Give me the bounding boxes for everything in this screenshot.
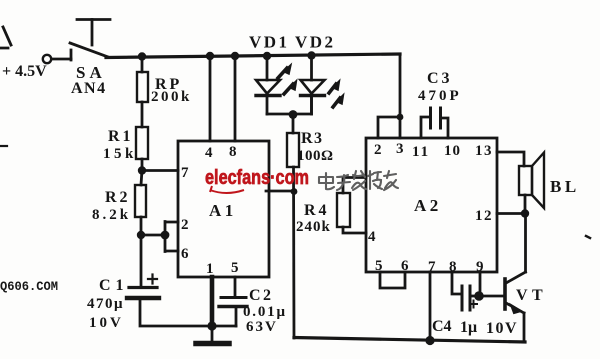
ground <box>211 326 214 342</box>
wire node to VT collector <box>524 213 527 272</box>
svg-text:A1: A1 <box>209 201 237 220</box>
wire C2 to ground net <box>235 307 238 326</box>
push button plunger <box>91 20 94 46</box>
A1 pin 8 leg <box>234 56 237 141</box>
wire R3 to bottom rail <box>292 167 295 338</box>
scan artifact dash left edge <box>0 145 7 147</box>
svg-text:elecfans·com: elecfans·com <box>205 167 309 189</box>
scan artifact speck right <box>586 236 590 238</box>
resistor R1 <box>136 127 148 159</box>
svg-text:C1: C1 <box>99 277 129 294</box>
svg-text:3: 3 <box>396 141 404 157</box>
wire A2 pin12 <box>497 212 525 215</box>
svg-text:12: 12 <box>475 208 493 224</box>
capacitor C1 plus mark <box>148 275 157 284</box>
node C4 base junction dot <box>474 291 484 301</box>
wire VT base <box>479 295 505 298</box>
svg-text:5: 5 <box>231 260 239 276</box>
svg-text:R2: R2 <box>105 189 131 206</box>
watermark chinese characters gray <box>319 171 398 190</box>
svg-text:10V: 10V <box>486 320 518 337</box>
wire R1R2 node to R2 <box>141 170 142 185</box>
tie bar pins 2 and 6 of A1 <box>165 222 178 252</box>
wire R2 node to pins 2-6 tie <box>141 234 165 237</box>
wire C1 to ground net <box>140 298 236 326</box>
svg-text:10V: 10V <box>89 315 124 331</box>
A2 pin 9 leg <box>479 272 482 296</box>
wire node R1R2 to A1 pin7 <box>142 169 178 172</box>
transistor Q1 VT collector <box>506 272 526 283</box>
svg-text:8: 8 <box>229 144 237 160</box>
svg-text:VD2: VD2 <box>295 33 336 52</box>
LED VD1 arrows <box>278 68 287 78</box>
node R2 bottom junction dots <box>137 231 145 239</box>
svg-text:C3: C3 <box>427 70 453 87</box>
svg-text:6: 6 <box>401 258 409 274</box>
transistor VT base bar <box>503 279 507 309</box>
wire R2 bottom <box>140 217 143 235</box>
capacitor C4 plates <box>461 286 464 310</box>
wire R4 to A2 pin4 <box>343 227 366 233</box>
svg-text:VD1: VD1 <box>249 33 290 52</box>
jumper A2 pins 5-6 <box>380 272 405 288</box>
LED VD2 arrows <box>329 84 336 93</box>
transistor VT emitter <box>506 303 524 313</box>
A1 pin 4 leg <box>209 56 212 141</box>
svg-text:+ 4.5V: + 4.5V <box>2 63 47 80</box>
svg-text:5: 5 <box>375 258 383 274</box>
wire node to C1 <box>140 235 143 286</box>
svg-text:6: 6 <box>181 246 189 262</box>
svg-text:2: 2 <box>374 142 382 158</box>
svg-text:15k: 15k <box>103 146 137 162</box>
wire R1 bottom <box>141 159 144 170</box>
A1 pin 5 leg <box>234 277 237 297</box>
wire RP top lead <box>141 56 144 72</box>
A2 pin 8 leg to C4 <box>452 272 461 294</box>
capacitor C4 plus mark <box>470 301 477 308</box>
A2 pin 7 leg <box>429 272 432 341</box>
svg-text:13: 13 <box>475 143 493 159</box>
wire RP to R1 <box>141 102 144 127</box>
svg-text:7: 7 <box>181 165 189 181</box>
svg-text:200k: 200k <box>151 89 192 105</box>
svg-text:AN4: AN4 <box>71 80 107 97</box>
svg-text:C2: C2 <box>249 287 274 304</box>
capacitor C2 bottom plate <box>219 305 247 308</box>
svg-text:100Ω: 100Ω <box>297 148 334 164</box>
svg-text:VT: VT <box>516 287 547 304</box>
junction dot pin1 ground <box>207 321 216 330</box>
speaker BL <box>519 166 532 195</box>
svg-text:BL: BL <box>550 177 580 196</box>
node pin7 rail junction dot <box>425 336 434 345</box>
svg-text:Q606.COM: Q606.COM <box>0 280 58 294</box>
svg-text:0.01μ: 0.01μ <box>243 304 287 320</box>
svg-text:1μ: 1μ <box>460 319 477 336</box>
push button bar SA <box>77 18 110 21</box>
svg-text:10: 10 <box>444 143 461 159</box>
svg-text:470μ: 470μ <box>87 296 124 312</box>
IC A2 box <box>366 138 497 272</box>
wire VD cathodes join <box>267 96 312 114</box>
svg-text:11: 11 <box>412 144 430 160</box>
capacitor C1 bottom plate <box>127 296 159 300</box>
junction dots on top rail <box>138 52 146 60</box>
LED VD2 <box>310 56 313 80</box>
node R1-R2 junction dot <box>138 166 146 174</box>
svg-text:8.2k: 8.2k <box>92 207 131 223</box>
scan artifact mark top-left <box>0 27 11 48</box>
resistor R4 <box>337 193 350 227</box>
svg-text:63V: 63V <box>246 319 278 335</box>
op-amp U1 box A1 <box>178 141 269 277</box>
resistor R2 <box>135 185 146 217</box>
resistor R3 <box>287 133 299 167</box>
capacitor C2 top plate <box>221 296 246 299</box>
switch SA contact tick <box>70 50 73 60</box>
watermark red tail <box>210 186 244 193</box>
resistor RP <box>137 72 148 102</box>
wire A2 pin13 to speaker <box>497 152 524 166</box>
svg-text:470P: 470P <box>418 88 462 104</box>
svg-text:2: 2 <box>181 217 189 233</box>
resistor R4 top lead <box>343 178 366 194</box>
wire emitter to bottom rail <box>523 313 526 342</box>
switch SA blade <box>70 43 108 57</box>
jumper A2 pins 2-3 <box>378 117 400 138</box>
svg-text:4: 4 <box>368 229 376 245</box>
wire rail down to A2 pin3 <box>399 55 402 138</box>
svg-text:1: 1 <box>206 261 214 277</box>
svg-text:4: 4 <box>205 145 213 161</box>
svg-text:R4: R4 <box>304 202 330 219</box>
capacitor C1 top plate <box>129 286 157 289</box>
svg-text:R3: R3 <box>301 130 324 147</box>
LED VD1 <box>266 56 269 80</box>
wire VD node to R3 <box>292 114 295 133</box>
wire C4 to base node <box>470 295 479 298</box>
svg-text:C4: C4 <box>432 318 452 335</box>
node pin12 junction dot <box>521 209 529 217</box>
svg-text:R1: R1 <box>108 128 134 145</box>
capacitor C3 <box>429 108 432 128</box>
svg-text:7: 7 <box>428 259 436 275</box>
node pin3 junction <box>291 188 298 195</box>
wire terminal to switch <box>52 58 72 61</box>
A1 pin 1 leg <box>210 277 215 326</box>
battery terminal +4.5V <box>43 55 51 63</box>
svg-text:9: 9 <box>476 259 484 275</box>
wire A1 pin3 output <box>266 190 294 193</box>
svg-text:8: 8 <box>449 259 457 275</box>
top rail wire <box>106 54 400 58</box>
bottom rail wire <box>294 338 525 343</box>
wire speaker to pin12 node <box>524 195 527 213</box>
node VD junction dot <box>289 110 298 119</box>
svg-text:A2: A2 <box>414 196 442 215</box>
svg-text:240k: 240k <box>296 219 331 235</box>
